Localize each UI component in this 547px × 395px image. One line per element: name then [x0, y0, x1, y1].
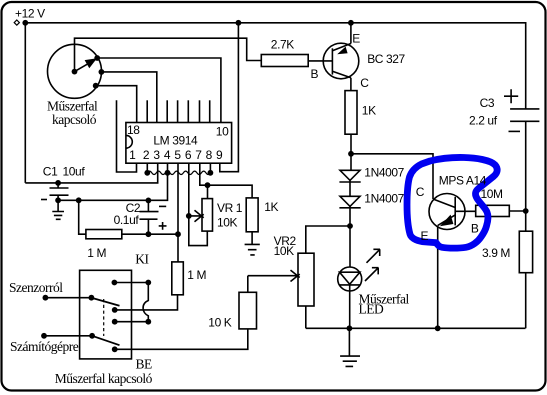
- node C2 top: [146, 198, 152, 204]
- svg-text:C: C: [416, 185, 425, 199]
- resistor 1K LM3914: [246, 198, 258, 232]
- transistor Q1 BC327: [323, 43, 359, 79]
- node pin5 rail: [175, 231, 181, 237]
- svg-text:VR 1: VR 1: [217, 201, 243, 215]
- wire 10M to right rail: [509, 210, 525, 212]
- wire 1M-horizontal to pin5 rail: [122, 233, 178, 235]
- wire 2.7K to BC327 base: [308, 60, 332, 62]
- pin 9 wire bracket up to +12V rail: [220, 23, 239, 172]
- svg-text:10K: 10K: [217, 215, 238, 229]
- svg-text:1K: 1K: [264, 200, 278, 214]
- svg-text:6: 6: [185, 148, 192, 162]
- resistor 3.9M: [519, 231, 532, 273]
- diode D2 1N4007: [340, 196, 360, 206]
- pin 6 wire down to VR1 wiper: [188, 163, 190, 216]
- diode D1 1N4007: [340, 170, 360, 180]
- resistor 10K: [239, 292, 257, 329]
- C3 plus sign: [504, 89, 518, 103]
- node LED ground: [347, 325, 353, 331]
- node switch pole B: [112, 307, 118, 313]
- wire Szamitogepre terminal: [44, 335, 92, 337]
- wire MPSA14 base to 10M: [455, 210, 475, 212]
- wire BC327 emitter to +12V rail: [350, 23, 352, 44]
- pin 8 wire: [209, 163, 211, 173]
- node 1M drop: [76, 197, 82, 203]
- pin 2 wire: [146, 163, 148, 173]
- svg-text:C3: C3: [480, 96, 495, 110]
- svg-text:C1: C1: [43, 165, 58, 179]
- wire diode node down to LED: [349, 226, 351, 267]
- svg-text:LED: LED: [359, 301, 384, 316]
- svg-text:C: C: [360, 76, 369, 90]
- node rail-pin9: [236, 20, 242, 26]
- svg-text:5: 5: [174, 148, 181, 162]
- svg-text:9: 9: [216, 148, 223, 162]
- pin 4 wire: [167, 163, 169, 173]
- node C1 bottom: [55, 197, 61, 203]
- wire collector rail to MPSA14: [351, 154, 433, 199]
- wire pin1 bracket: [117, 100, 137, 172]
- pin 17 stub: [146, 100, 148, 122]
- wire 10K top to VR2 wiper: [247, 276, 249, 293]
- node rotary contact2: [99, 69, 105, 75]
- svg-text:7: 7: [195, 148, 202, 162]
- wire pin3 rail to left rail: [25, 163, 157, 183]
- wire LED to bottom rail: [349, 291, 351, 328]
- svg-text:4: 4: [164, 148, 171, 162]
- svg-text:2.7K: 2.7K: [271, 38, 294, 52]
- wire VR2 bottom to rail: [305, 306, 307, 328]
- svg-text:kapcsoló: kapcsoló: [52, 112, 97, 127]
- svg-text:2.2 uf: 2.2 uf: [469, 114, 498, 128]
- wire left rail from +12V down: [24, 23, 26, 183]
- LED arrows: [367, 249, 381, 262]
- wire 10K bottom to switch D: [115, 329, 248, 349]
- wire rotary contact3 to pin18: [96, 86, 137, 123]
- svg-text:1: 1: [129, 148, 136, 162]
- node squiggle pin2: [144, 170, 150, 176]
- svg-text:1N4007: 1N4007: [364, 165, 404, 179]
- resistor 2.7K: [261, 55, 308, 67]
- svg-text:2: 2: [143, 148, 150, 162]
- resistor 10M: [476, 205, 510, 216]
- wire pole A to G: [114, 282, 148, 284]
- node Szenzorrol terminal: [43, 295, 49, 301]
- node switch pole E: [89, 295, 95, 301]
- pin 15 stub: [166, 100, 168, 122]
- wire VR1 rheostat loop: [189, 216, 208, 246]
- wire 1M-horizontal left drop: [79, 200, 86, 234]
- op-amp U1 LM3914 body: [126, 123, 232, 164]
- svg-text:Műszerfal kapcsoló: Műszerfal kapcsoló: [55, 371, 153, 386]
- svg-text:3: 3: [153, 148, 160, 162]
- VR2 wiper arrow: [248, 270, 300, 281]
- node switch pole F: [89, 333, 95, 339]
- C2 minus sign: [159, 205, 166, 207]
- node switch pole A: [112, 280, 118, 286]
- potentiometer VR2: [298, 253, 314, 306]
- wire Szenzorrol terminal: [45, 297, 91, 299]
- C1 minus sign: [41, 199, 47, 201]
- MPSA14 emitter arrow: [440, 215, 454, 227]
- wire G-H crossover with hop: [143, 283, 148, 322]
- svg-text:8: 8: [206, 148, 213, 162]
- ground under C1: [52, 200, 64, 219]
- node G: [145, 280, 151, 286]
- pin 11 stub: [209, 100, 211, 122]
- svg-text:B: B: [311, 67, 319, 81]
- svg-text:0.1uf: 0.1uf: [114, 213, 140, 227]
- node switch pole C: [112, 319, 118, 325]
- svg-text:1N4007: 1N4007: [364, 192, 404, 206]
- node +12V junction: [22, 20, 28, 26]
- switch arm 2: [92, 336, 119, 345]
- pin 12 stub: [199, 100, 201, 122]
- capacitor C3: [510, 109, 539, 121]
- node Szamitogepre terminal: [41, 333, 47, 339]
- pin 14 stub: [177, 100, 179, 122]
- svg-text:BC 327: BC 327: [367, 52, 405, 66]
- svg-text:10: 10: [216, 124, 229, 138]
- node 10M rail: [523, 208, 529, 214]
- node squiggle pin4: [165, 170, 171, 176]
- squiggle wire pins 2-8: [147, 171, 210, 174]
- svg-text:1K: 1K: [362, 103, 376, 117]
- svg-text:Számítógépre: Számítógépre: [10, 339, 79, 354]
- bottom ground rail: [306, 327, 526, 329]
- wire 1M vertical bottom to switch B: [115, 295, 178, 310]
- node +12V terminal: [14, 20, 19, 25]
- svg-text:3.9 M: 3.9 M: [482, 246, 510, 260]
- wire rotary contact1 to pin10: [97, 58, 221, 123]
- pin 7 wire to VR1 top and 1K top: [200, 163, 252, 198]
- wire VR1 top drop: [207, 185, 209, 198]
- switch box Muszerfal kapcsolo: [80, 270, 132, 359]
- svg-text:MPS A14: MPS A14: [439, 173, 487, 187]
- svg-text:18: 18: [127, 123, 140, 137]
- ground under LED rail: [340, 328, 360, 366]
- capacitor C1: [50, 183, 69, 200]
- wire diode node to VR2 top: [306, 226, 350, 253]
- switch dashed link: [103, 299, 105, 336]
- node 1K diode junction: [348, 151, 354, 157]
- node rotary contact3: [93, 83, 99, 89]
- node rotary center: [72, 69, 78, 75]
- svg-text:1 M: 1 M: [87, 246, 106, 260]
- svg-text:10uf: 10uf: [63, 165, 86, 179]
- node switch pole D: [112, 346, 118, 352]
- wire C3 bottom to 10M node down to 3.9M: [525, 121, 527, 231]
- wire 1K bottom to diode node: [350, 134, 352, 170]
- wire MPSA14 emitter to bottom rail: [437, 225, 439, 328]
- potentiometer VR1: [202, 199, 213, 232]
- pin 5 wire down to 1M vertical: [177, 163, 179, 262]
- svg-text:KI: KI: [135, 252, 149, 267]
- svg-text:E: E: [352, 31, 360, 45]
- wire pole C to H: [115, 321, 149, 323]
- svg-text:10 K: 10 K: [208, 316, 231, 330]
- switch arm 1: [91, 298, 119, 306]
- rotary switch arm: [75, 59, 96, 71]
- svg-text:Szenzorról: Szenzorról: [9, 280, 63, 295]
- wire rotary common up and right to 2.7K: [75, 38, 262, 71]
- node VR1 top: [205, 182, 211, 188]
- ground under 1K: [245, 232, 260, 255]
- pin 13 stub: [187, 100, 189, 122]
- svg-text:BE: BE: [136, 357, 153, 372]
- svg-text:LM 3914: LM 3914: [153, 133, 198, 147]
- svg-text:10M: 10M: [481, 187, 504, 201]
- blue marker loop around MPSA14: [407, 157, 497, 248]
- svg-text:10K: 10K: [274, 244, 295, 258]
- resistor 1M horizontal: [86, 230, 122, 239]
- wire +12V top rail: [25, 23, 525, 109]
- IC notch: [126, 135, 132, 148]
- wire BC327 collector to 1K: [350, 78, 352, 91]
- transistor Q2 MPSA14: [429, 194, 465, 230]
- wire C1 to C2 ground-side rail: [58, 173, 167, 201]
- BC327 emitter arrow: [337, 47, 347, 55]
- svg-text:1 M: 1 M: [187, 268, 206, 282]
- LED Muszerfal circle: [338, 267, 362, 291]
- svg-text:B: B: [471, 221, 479, 235]
- node H: [145, 319, 151, 325]
- resistor 1K collector: [345, 91, 357, 135]
- svg-text:+12 V: +12 V: [15, 6, 45, 20]
- node C2 bottom: [146, 231, 152, 237]
- node squiggle pin8: [208, 170, 214, 176]
- node rotary contact1: [94, 55, 100, 61]
- resistor 1M vertical: [172, 262, 184, 295]
- rotary switch arrowhead: [85, 58, 97, 68]
- VR1 wiper arrow: [191, 210, 203, 221]
- C2 plus sign: [159, 222, 167, 230]
- capacitor C2: [140, 200, 159, 234]
- node diode LED junction: [347, 223, 353, 229]
- node emitter rail: [435, 325, 441, 331]
- svg-text:E: E: [421, 229, 429, 243]
- C3 minus sign: [509, 130, 521, 132]
- wire rotary contact2 to pin16: [101, 72, 156, 123]
- node C1 top: [55, 180, 61, 186]
- rotary switch circle: [48, 44, 102, 98]
- wire 3.9M bottom to rail: [525, 273, 527, 329]
- node VR1 wiper: [186, 213, 192, 219]
- node rail-emitter: [348, 20, 354, 26]
